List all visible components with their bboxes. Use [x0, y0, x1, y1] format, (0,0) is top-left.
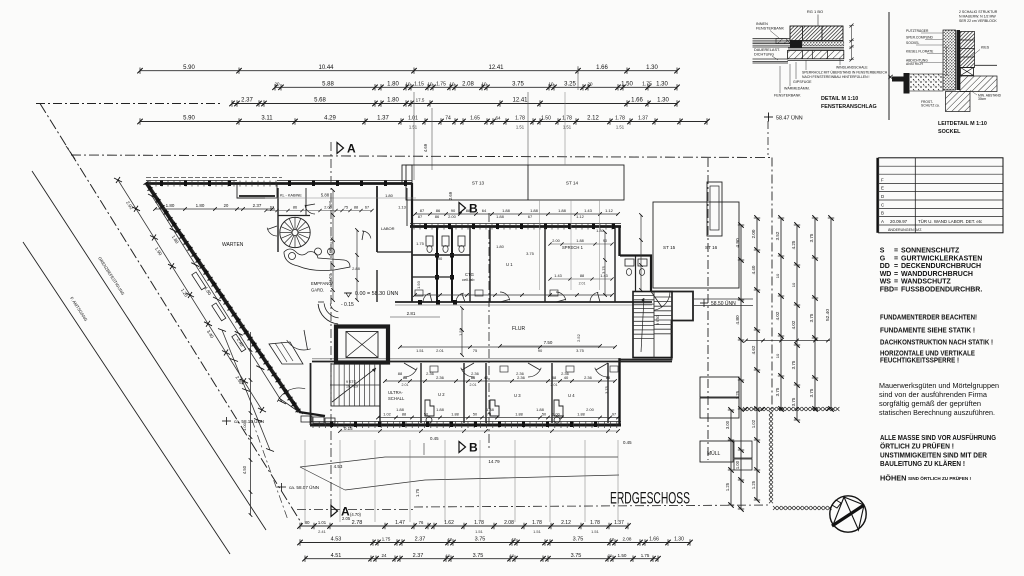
svg-text:3.75: 3.75 — [791, 360, 796, 369]
vert dim chain left block x333 — [328, 188, 335, 302]
svg-text:SPER.COMPUND: SPER.COMPUND — [906, 36, 934, 40]
svg-text:=: = — [894, 287, 898, 294]
svg-text:16.7/29: 16.7/29 — [346, 385, 358, 389]
right wing east wall upper — [618, 226, 620, 256]
svg-text:RG 1 BO: RG 1 BO — [807, 9, 823, 14]
svg-text:67: 67 — [528, 214, 533, 219]
svg-text:10: 10 — [512, 537, 517, 542]
svg-text:Mauerwerksgüten und Mörtelgrup: Mauerwerksgüten und Mörtelgruppen — [879, 382, 999, 390]
bottom wing room dividers — [379, 363, 381, 423]
dimension chain top row 3 — [229, 98, 679, 107]
svg-text:BAULEITUNG ZU KLÄREN !: BAULEITUNG ZU KLÄREN ! — [880, 459, 965, 468]
svg-text:ca. 58.07 ÜNN: ca. 58.07 ÜNN — [289, 484, 319, 490]
svg-text:3.75: 3.75 — [573, 537, 584, 543]
svg-text:20: 20 — [224, 203, 229, 208]
svg-text:3.52: 3.52 — [775, 231, 780, 240]
svg-text:10: 10 — [427, 82, 433, 87]
svg-text:2 SCHALIG STRUKTUR: 2 SCHALIG STRUKTUR — [959, 10, 998, 14]
second diagonal dim chain — [148, 194, 286, 404]
svg-text:B: B — [881, 211, 884, 216]
entry annex — [620, 292, 693, 360]
extension lines from top dims down (sparse) — [564, 92, 566, 165]
svg-text:3.25: 3.25 — [564, 82, 576, 88]
diagonal glazed facade wall — [146, 183, 299, 412]
svg-text:ULTRA-: ULTRA- — [388, 390, 403, 395]
separator line between details — [888, 12, 890, 120]
svg-text:2.01: 2.01 — [579, 282, 586, 286]
svg-text:2.41: 2.41 — [318, 529, 327, 534]
ramp edge line 1 — [300, 457, 618, 467]
svg-text:2.37: 2.37 — [415, 537, 426, 543]
vert dash x331 section A — [330, 142, 332, 512]
exam couches L-shapes — [425, 400, 434, 416]
svg-text:1.78: 1.78 — [590, 520, 600, 526]
wc block horizontal wall y255 — [412, 254, 470, 256]
svg-text:1.78: 1.78 — [562, 116, 572, 122]
svg-text:4.02: 4.02 — [791, 320, 796, 329]
vertical dim line x250 entrance — [242, 332, 252, 517]
svg-text:2.36: 2.36 — [426, 371, 435, 376]
svg-text:NACH FENSTEREINBAU HINTERFÜLLE: NACH FENSTEREINBAU HINTERFÜLLEN ! — [802, 75, 870, 79]
svg-text:40: 40 — [484, 375, 489, 380]
site boundary vertical dash-dot x708 — [707, 158, 709, 460]
svg-text:U 3: U 3 — [514, 393, 521, 398]
boxes below ST15 — [700, 377, 739, 397]
svg-text:1.30: 1.30 — [646, 65, 658, 71]
svg-text:1.78: 1.78 — [474, 520, 484, 526]
parking ST13/ST14 — [406, 165, 624, 200]
svg-text:2.36: 2.36 — [584, 375, 593, 380]
main stair treads — [330, 364, 380, 406]
radiators along facade — [192, 272, 206, 290]
svg-text:1.01: 1.01 — [408, 116, 418, 122]
dimension chain bottom row 2 — [297, 537, 692, 546]
svg-text:1.50: 1.50 — [618, 553, 627, 558]
divider left block / right wing — [411, 226, 413, 302]
svg-text:10: 10 — [481, 82, 487, 87]
svg-text:4.53: 4.53 — [334, 464, 343, 469]
svg-text:64: 64 — [482, 208, 487, 213]
svg-text:FUNDAMENTE SIEHE STATIK !: FUNDAMENTE SIEHE STATIK ! — [880, 326, 975, 335]
small step flight near facade — [269, 342, 303, 364]
svg-text:4.80: 4.80 — [735, 315, 741, 325]
svg-text:4.40: 4.40 — [751, 265, 756, 274]
svg-text:SOCKEL: SOCKEL — [938, 129, 961, 135]
svg-text:1.37: 1.37 — [377, 116, 389, 122]
muell box — [700, 441, 733, 462]
svg-text:10: 10 — [775, 273, 780, 278]
right stairwell treads — [633, 292, 672, 358]
svg-text:DD: DD — [880, 263, 890, 270]
section marker B — [459, 203, 466, 214]
vert dim chain x741 — [735, 222, 744, 511]
svg-text:2.36: 2.36 — [517, 375, 526, 380]
corridor north wall — [395, 301, 652, 303]
wc annex fixtures — [625, 259, 634, 266]
vert dim chain x357 — [355, 228, 359, 302]
west wall bottom wing piece — [310, 363, 312, 425]
svg-text:2.01: 2.01 — [402, 383, 409, 387]
kabine door arc — [305, 205, 315, 214]
level 0.00 mark — [341, 290, 398, 308]
svg-text:3.00: 3.00 — [725, 420, 730, 429]
vert dim chain x462 corridor — [460, 306, 464, 357]
svg-text:87: 87 — [418, 214, 423, 219]
svg-text:=: = — [894, 248, 898, 255]
dash-dot from level mark down — [767, 121, 769, 155]
svg-text:5.88: 5.88 — [322, 82, 334, 88]
svg-text:9 STG: 9 STG — [656, 315, 660, 325]
svg-text:SCHUTZ ca.: SCHUTZ ca. — [921, 104, 940, 108]
svg-text:KL - KABINE: KL - KABINE — [280, 194, 302, 198]
svg-text:86: 86 — [293, 206, 297, 210]
door arcs corridor bottom rooms — [404, 368, 417, 377]
svg-text:1.88: 1.88 — [496, 214, 505, 219]
svg-text:97: 97 — [612, 413, 616, 417]
svg-text:10: 10 — [775, 353, 780, 358]
small x at separator — [888, 75, 892, 79]
entrance steps — [301, 416, 312, 422]
vert dim chain x757 — [751, 215, 760, 502]
facade recess — [237, 183, 277, 198]
svg-text:5.90: 5.90 — [183, 65, 195, 71]
svg-text:1.43: 1.43 — [584, 208, 593, 213]
horizontal dim row right side y409 ext — [744, 407, 830, 411]
svg-text:HÖHEN: HÖHEN — [880, 474, 906, 483]
svg-text:2.00: 2.00 — [586, 407, 595, 412]
svg-text:SER 22 cm VERBLOCK: SER 22 cm VERBLOCK — [959, 19, 997, 23]
svg-text:88: 88 — [471, 375, 476, 380]
svg-text:1.50: 1.50 — [541, 116, 551, 122]
svg-text:1.15: 1.15 — [414, 82, 424, 88]
bench circles — [289, 253, 296, 260]
svg-text:=: = — [894, 255, 898, 262]
svg-text:INNEN: INNEN — [756, 22, 768, 26]
notes hoehen — [880, 474, 972, 483]
svg-text:0.15: 0.15 — [344, 426, 353, 431]
svg-text:88: 88 — [580, 274, 584, 278]
svg-text:40: 40 — [564, 375, 569, 380]
hatched boundary vertical run — [769, 411, 773, 415]
svg-text:76: 76 — [419, 520, 424, 525]
svg-text:3.75: 3.75 — [809, 233, 814, 242]
svg-text:GIPSFUGE: GIPSFUGE — [793, 80, 812, 84]
svg-text:4.51: 4.51 — [331, 553, 342, 559]
svg-text:20: 20 — [274, 82, 280, 87]
svg-text:DECKENDURCHBRUCH: DECKENDURCHBRUCH — [901, 263, 981, 270]
svg-text:3.75: 3.75 — [809, 313, 814, 322]
dim chain inside right wing y214 — [413, 208, 620, 216]
svg-text:86: 86 — [435, 214, 440, 219]
section marker A — [337, 143, 344, 154]
hatched boundary bottom run — [773, 506, 777, 510]
hatched boundary top run — [743, 407, 747, 411]
svg-text:20.09.97: 20.09.97 — [890, 219, 908, 224]
svg-text:10: 10 — [446, 553, 451, 558]
svg-text:2.00: 2.00 — [448, 214, 457, 219]
svg-text:ST 16: ST 16 — [705, 245, 718, 250]
svg-text:90: 90 — [438, 256, 443, 261]
window ticks right wing north — [413, 224, 415, 230]
window ticks south wall — [312, 422, 314, 429]
svg-text:4.62: 4.62 — [751, 345, 756, 354]
top wall left block — [146, 182, 412, 185]
svg-text:GARD.: GARD. — [311, 288, 324, 293]
dimension chain top row 1 — [137, 65, 679, 74]
svg-text:SCHALL: SCHALL — [388, 396, 405, 401]
level mark +58.47 UNN — [764, 113, 803, 122]
svg-text:LEITDETAIL M 1:10: LEITDETAIL M 1:10 — [938, 121, 987, 127]
right wing room dividers — [469, 227, 471, 302]
svg-text:MÜLL: MÜLL — [707, 450, 721, 457]
north symbol compass — [830, 496, 866, 532]
dash-dot boundary segment top left — [36, 103, 222, 105]
svg-text:4.29: 4.29 — [324, 116, 336, 122]
svg-text:(4.70): (4.70) — [350, 512, 362, 517]
svg-text:1.02: 1.02 — [751, 419, 756, 428]
svg-text:2.12: 2.12 — [561, 520, 571, 526]
window jamb blobs south wall — [330, 422, 333, 428]
svg-text:1.51: 1.51 — [516, 125, 525, 130]
svg-text:2.08: 2.08 — [462, 82, 474, 88]
level mark 58.07 — [277, 483, 319, 491]
small fixtures in rooms (sinks) — [415, 290, 423, 296]
svg-text:1.88: 1.88 — [576, 239, 583, 243]
svg-text:- 0.15: - 0.15 — [341, 302, 354, 308]
south wall bottom wing — [310, 424, 621, 427]
svg-text:1.51: 1.51 — [475, 529, 484, 534]
site boundary vertical dash-dot x772 — [771, 158, 773, 410]
svg-text:1.80: 1.80 — [387, 98, 399, 104]
svg-text:U 1: U 1 — [506, 262, 513, 267]
svg-text:WD: WD — [880, 271, 892, 278]
dashdot below building — [297, 509, 414, 511]
diagonal facade inner line — [150, 185, 303, 414]
dimension chain bottom row 1 — [297, 520, 630, 529]
window jamb blobs top wall — [160, 181, 163, 187]
svg-text:1.13: 1.13 — [398, 205, 407, 210]
svg-text:FENSTERBANK: FENSTERBANK — [774, 94, 801, 98]
svg-text:88: 88 — [403, 375, 408, 380]
svg-text:U 4: U 4 — [568, 393, 575, 398]
svg-text:2.08: 2.08 — [504, 520, 514, 526]
window ticks top wall — [149, 181, 151, 187]
svg-text:=: = — [894, 271, 898, 278]
svg-text:80: 80 — [304, 520, 310, 525]
svg-text:N MAUERW. N 1/2 MW: N MAUERW. N 1/2 MW — [959, 15, 996, 19]
reception desk — [318, 304, 338, 324]
notes block 3 masse — [880, 433, 996, 468]
svg-text:12.41: 12.41 — [488, 65, 504, 71]
svg-text:1.88: 1.88 — [502, 208, 511, 213]
svg-text:1.51: 1.51 — [616, 125, 625, 130]
elevator shaft dark walls — [336, 327, 388, 363]
svg-text:WARTEN: WARTEN — [222, 242, 244, 248]
svg-text:FLUR: FLUR — [512, 326, 525, 332]
svg-text:DAUERELAST.: DAUERELAST. — [754, 48, 780, 52]
svg-text:1.37: 1.37 — [614, 520, 624, 526]
svg-text:SONNENSCHUTZ: SONNENSCHUTZ — [901, 248, 960, 255]
detail 1 fensteranschlag group — [753, 9, 888, 110]
svg-text:1.88: 1.88 — [515, 413, 522, 417]
svg-text:GURTWICKLERKASTEN: GURTWICKLERKASTEN — [901, 255, 982, 262]
svg-text:=: = — [894, 279, 898, 286]
vert dim chain x781 — [775, 215, 784, 411]
thin dim line y198 — [265, 197, 416, 199]
svg-text:WÄRMEDÄMM.: WÄRMEDÄMM. — [784, 87, 810, 91]
svg-text:75: 75 — [344, 206, 348, 210]
svg-text:2.01: 2.01 — [551, 383, 558, 387]
svg-text:2.01: 2.01 — [470, 383, 477, 387]
svg-text:1.25: 1.25 — [751, 480, 756, 489]
svg-text:10: 10 — [448, 537, 453, 542]
svg-text:C: C — [881, 203, 884, 208]
svg-text:2.08: 2.08 — [623, 537, 632, 542]
svg-text:WS: WS — [880, 279, 892, 286]
svg-text:2.81: 2.81 — [407, 311, 416, 316]
svg-text:10: 10 — [449, 82, 455, 87]
svg-text:1.66: 1.66 — [596, 65, 608, 71]
svg-text:E: E — [881, 186, 884, 191]
svg-text:1.80: 1.80 — [496, 244, 505, 249]
svg-text:86: 86 — [436, 208, 441, 213]
svg-text:10.44: 10.44 — [318, 65, 334, 71]
entry door arc right annex — [654, 292, 670, 311]
NE corner inner wall — [406, 188, 408, 226]
svg-text:D: D — [881, 194, 884, 199]
svg-text:FBD: FBD — [880, 287, 894, 294]
wc jamb blocks — [435, 253, 439, 258]
svg-text:PUTZTRÄGER: PUTZTRÄGER — [906, 29, 929, 33]
svg-text:1.75: 1.75 — [641, 553, 650, 558]
svg-text:0.45: 0.45 — [623, 440, 632, 445]
svg-text:2.37: 2.37 — [241, 98, 253, 104]
svg-text:U 2: U 2 — [438, 392, 445, 397]
svg-text:ST 14: ST 14 — [566, 181, 579, 186]
svg-text:58.50 ÜNN: 58.50 ÜNN — [711, 300, 736, 307]
svg-text:50: 50 — [473, 413, 477, 417]
svg-text:1.88: 1.88 — [530, 208, 539, 213]
svg-text:2.01: 2.01 — [328, 247, 333, 256]
door top left block — [267, 228, 277, 236]
svg-text:3.75: 3.75 — [526, 251, 535, 256]
svg-text:A: A — [881, 219, 884, 224]
svg-text:cell.lab: cell.lab — [462, 277, 475, 282]
svg-text:TÜR U. WAND LABOR. DET. etc: TÜR U. WAND LABOR. DET. etc — [918, 219, 983, 224]
vert dim chain x797 — [791, 222, 800, 422]
detail 2 sockel group — [892, 10, 1002, 135]
svg-text:DACHKONSTRUKTION NACH STATIK !: DACHKONSTRUKTION NACH STATIK ! — [880, 338, 993, 347]
svg-text:=: = — [894, 263, 898, 270]
svg-text:F: F — [881, 178, 884, 183]
svg-text:3.75: 3.75 — [791, 397, 796, 406]
svg-text:1.88: 1.88 — [436, 407, 445, 412]
svg-text:2.69: 2.69 — [448, 191, 453, 200]
svg-text:3.11: 3.11 — [261, 116, 273, 122]
svg-text:3.75: 3.75 — [512, 82, 524, 88]
site boundary dash-dot horizontal y155 — [71, 155, 772, 158]
svg-text:ÖRTLICH ZU PRÜFEN !: ÖRTLICH ZU PRÜFEN ! — [880, 442, 954, 451]
kabine room top middle — [277, 188, 279, 252]
legend abbreviations — [880, 248, 983, 294]
svg-text:1.30: 1.30 — [674, 537, 684, 543]
svg-text:1.43: 1.43 — [600, 274, 607, 278]
svg-text:58.47 ÜNN: 58.47 ÜNN — [776, 115, 803, 122]
svg-text:2.37: 2.37 — [413, 553, 424, 559]
sprech1 dim rows — [548, 239, 613, 285]
svg-text:1.88: 1.88 — [577, 413, 584, 417]
svg-text:88: 88 — [606, 375, 611, 380]
svg-text:1.12: 1.12 — [576, 214, 585, 219]
svg-text:2.00: 2.00 — [552, 413, 559, 417]
svg-text:10: 10 — [791, 282, 796, 287]
svg-text:FEUCHTIGKEITSSPERRE !: FEUCHTIGKEITSSPERRE ! — [880, 356, 959, 365]
svg-text:0.45: 0.45 — [430, 436, 439, 441]
svg-text:74: 74 — [445, 116, 451, 122]
svg-text:1.75: 1.75 — [436, 82, 446, 88]
svg-text:sind von der ausführenden Firm: sind von der ausführenden Firma — [879, 391, 987, 399]
svg-text:1.93: 1.93 — [416, 280, 421, 289]
svg-text:3.75: 3.75 — [604, 385, 609, 394]
east wall lower — [618, 358, 620, 426]
svg-text:1.75: 1.75 — [416, 241, 425, 246]
svg-text:88: 88 — [466, 208, 471, 213]
svg-text:2.88: 2.88 — [352, 266, 361, 271]
horizontal dim row right side y340 — [744, 339, 830, 343]
chimney ST16 tall box — [707, 182, 722, 236]
svg-text:5.68: 5.68 — [314, 98, 326, 104]
svg-text:1.66: 1.66 — [631, 98, 643, 104]
svg-text:ERDGESCHOSS: ERDGESCHOSS — [610, 490, 690, 508]
svg-text:75: 75 — [473, 348, 478, 353]
garage ST15 box — [653, 202, 739, 288]
svg-text:10: 10 — [405, 82, 411, 87]
dim chain corridor y347 — [398, 345, 617, 349]
svg-text:1.88: 1.88 — [396, 407, 405, 412]
labor west wall x377 — [376, 186, 378, 252]
NE chimney block — [402, 165, 412, 183]
svg-text:2.36: 2.36 — [436, 375, 445, 380]
svg-text:1.12: 1.12 — [605, 208, 614, 213]
svg-text:5.90: 5.90 — [183, 116, 195, 122]
svg-text:1.80: 1.80 — [387, 82, 399, 88]
dimension chain bottom row 3 — [302, 553, 660, 562]
svg-text:90: 90 — [451, 208, 456, 213]
roof overhang dashed top left block — [146, 177, 282, 179]
svg-text:1.78: 1.78 — [515, 116, 525, 122]
svg-text:1.51: 1.51 — [409, 125, 418, 130]
dim chain bottom wing y417.5 — [376, 413, 620, 420]
svg-text:50: 50 — [542, 413, 546, 417]
svg-text:50: 50 — [424, 413, 428, 417]
svg-text:3.75: 3.75 — [475, 537, 486, 543]
svg-text:3.75: 3.75 — [473, 553, 484, 559]
svg-text:1.75: 1.75 — [415, 488, 420, 497]
svg-text:SPERRHOLZ MIT ÜBERSTAND IN FEN: SPERRHOLZ MIT ÜBERSTAND IN FENSTERBEREIC… — [802, 71, 888, 75]
dim row y207 left block — [264, 206, 373, 213]
interior dim row waiting room — [153, 203, 275, 211]
svg-text:1.25: 1.25 — [735, 390, 740, 399]
svg-text:G: G — [880, 255, 886, 262]
svg-text:1.01: 1.01 — [318, 520, 327, 525]
vert dim chain x831 total — [825, 215, 834, 411]
svg-text:1.51: 1.51 — [591, 529, 600, 534]
title block table — [877, 158, 1003, 233]
svg-text:KIES: KIES — [981, 46, 990, 50]
svg-text:24: 24 — [382, 553, 387, 558]
svg-text:SIND ÖRTLICH ZU PRÜFEN !: SIND ÖRTLICH ZU PRÜFEN ! — [908, 475, 972, 481]
svg-text:52.40: 52.40 — [825, 309, 831, 321]
